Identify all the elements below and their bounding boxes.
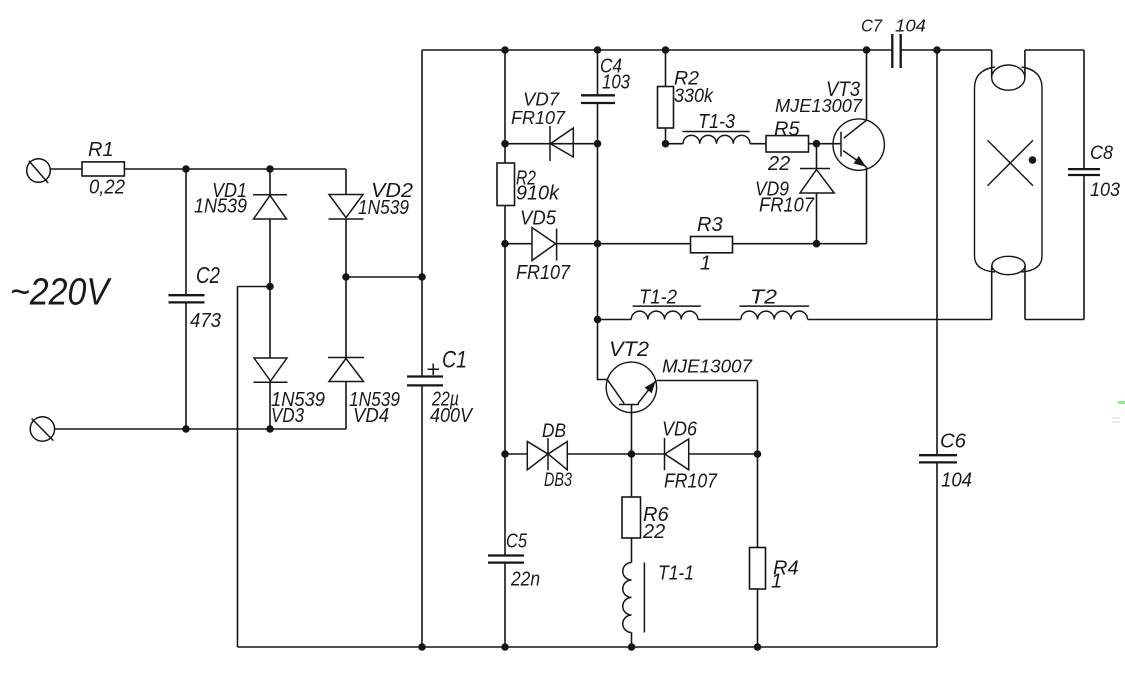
svg-text:473: 473 (190, 310, 221, 332)
svg-text:FR107: FR107 (516, 262, 571, 284)
svg-text:103: 103 (1090, 180, 1120, 201)
svg-text:330k: 330k (674, 86, 714, 107)
svg-text:T1-1: T1-1 (658, 563, 694, 585)
svg-text:104: 104 (895, 16, 926, 36)
svg-text:VD7: VD7 (523, 90, 560, 110)
svg-text:MJE13007: MJE13007 (775, 96, 863, 116)
svg-text:VT2: VT2 (609, 338, 649, 361)
svg-text:103: 103 (602, 72, 630, 94)
svg-text:C5: C5 (506, 531, 528, 553)
svg-text:0,22: 0,22 (89, 177, 125, 199)
svg-text:C6: C6 (940, 431, 967, 453)
svg-text:VD3: VD3 (271, 405, 304, 427)
svg-text:T1-2: T1-2 (639, 287, 677, 309)
svg-text:~220V: ~220V (10, 272, 112, 314)
svg-text:VD5: VD5 (520, 208, 557, 230)
svg-text:C1: C1 (442, 347, 467, 374)
svg-text:104: 104 (941, 470, 972, 492)
svg-text:FR107: FR107 (664, 471, 718, 493)
svg-text:T1-3: T1-3 (698, 111, 735, 133)
svg-text:22: 22 (642, 521, 665, 543)
svg-text:FR107: FR107 (759, 195, 815, 217)
svg-text:400V: 400V (430, 405, 473, 427)
svg-text:T2: T2 (750, 287, 777, 309)
svg-text:1: 1 (700, 253, 711, 275)
svg-text:1N539: 1N539 (358, 197, 409, 219)
svg-text:R5: R5 (774, 119, 800, 141)
svg-text:FR107: FR107 (511, 108, 566, 128)
svg-text:DB3: DB3 (544, 470, 572, 491)
svg-text:C2: C2 (196, 262, 220, 288)
svg-text:C8: C8 (1090, 143, 1113, 164)
svg-text:DB: DB (542, 421, 566, 442)
svg-text:MJE13007: MJE13007 (662, 357, 753, 377)
svg-text:VD4: VD4 (353, 405, 389, 427)
svg-text:R1: R1 (88, 139, 114, 161)
svg-text:C7: C7 (861, 16, 883, 36)
svg-text:910k: 910k (516, 183, 560, 205)
svg-text:22n: 22n (510, 569, 540, 591)
svg-text:VD6: VD6 (662, 419, 698, 441)
svg-text:1: 1 (771, 571, 782, 593)
svg-text:22: 22 (767, 153, 790, 175)
svg-text:R3: R3 (697, 214, 723, 236)
svg-text:1N539: 1N539 (194, 196, 247, 218)
